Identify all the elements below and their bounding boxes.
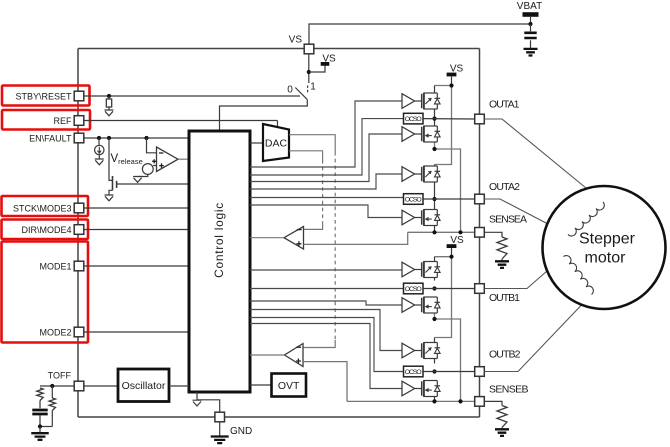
wire to inner VS tap bbox=[309, 66, 325, 72]
pin REF bbox=[74, 116, 84, 126]
pin OUTB1 bbox=[475, 284, 485, 294]
wire ctrl to HS A2 driver bbox=[250, 174, 402, 189]
ground control logic bbox=[193, 400, 202, 406]
highlight box STCK\MODE3 bbox=[2, 196, 89, 216]
supply VS bridge A bbox=[447, 64, 464, 86]
block Oscillator bbox=[118, 369, 169, 402]
wire en to opamp minus bbox=[147, 138, 157, 153]
wire STCK\MODE3 bbox=[84, 207, 189, 209]
transistor Q release bbox=[109, 138, 117, 195]
svg-text:GND: GND bbox=[230, 426, 252, 437]
gate driver A1 high-side bbox=[402, 94, 415, 109]
switch arm bbox=[295, 88, 307, 100]
wire VS-pin to VBAT bbox=[309, 24, 531, 44]
wire VS pin down to switch bbox=[308, 54, 310, 83]
ground senseB bbox=[495, 429, 509, 436]
comparator A bbox=[284, 227, 304, 250]
svg-text:Oscillator: Oscillator bbox=[122, 380, 166, 392]
wire to GND pin bbox=[197, 400, 220, 413]
resistor R2 toff bbox=[40, 386, 56, 427]
resistor R stby pulldown bbox=[106, 96, 111, 110]
wire ctrl to HS A1 driver bbox=[250, 101, 402, 167]
svg-text:STCK\MODE3: STCK\MODE3 bbox=[13, 203, 72, 213]
gate driver B2 low-side bbox=[402, 381, 415, 396]
gate driver A2 high-side bbox=[402, 167, 415, 182]
wire OUTB2 to coil bbox=[484, 295, 591, 372]
pin VS bbox=[304, 44, 314, 54]
ground GND pin bbox=[211, 422, 229, 443]
svg-text:0: 0 bbox=[287, 84, 293, 95]
node en junction 1 bbox=[97, 136, 101, 140]
node en junction 2 bbox=[107, 136, 111, 140]
stepper motor body bbox=[543, 186, 666, 309]
resistor R senseA bbox=[484, 232, 507, 261]
pin SENSEA bbox=[475, 228, 485, 238]
wire phase B2 bbox=[434, 359, 436, 364]
wire OUTA2 to coil bbox=[484, 199, 568, 235]
transistor A2 low-side MOSFET bbox=[415, 209, 441, 226]
wire ctrl to HS B2 driver bbox=[250, 310, 402, 351]
wire IC right border bbox=[479, 49, 481, 418]
node VS A bbox=[449, 83, 453, 87]
wire HS A2 drain bbox=[434, 165, 436, 167]
svg-text:MODE2: MODE2 bbox=[39, 327, 71, 337]
svg-text:TOFF: TOFF bbox=[48, 371, 72, 381]
svg-text:DIR\MODE4: DIR\MODE4 bbox=[21, 225, 71, 235]
wire SENSEA bbox=[408, 231, 475, 233]
svg-text:OUTB1: OUTB1 bbox=[489, 292, 520, 304]
wire MODE1 bbox=[84, 265, 189, 267]
block OCSO B2 bbox=[404, 366, 424, 377]
wire control to DAC bbox=[250, 142, 263, 144]
wire HS A1 drain bbox=[434, 86, 436, 94]
wire ctrl to LS A2 driver bbox=[250, 205, 402, 218]
voltage source V release bbox=[138, 159, 157, 176]
pin TOFF bbox=[74, 381, 84, 391]
transistor B1 low-side MOSFET bbox=[415, 297, 441, 314]
svg-text:SENSEB: SENSEB bbox=[489, 383, 529, 395]
wire OUTB1 bbox=[423, 288, 475, 290]
ground toff bbox=[31, 427, 49, 440]
wire compA plus bbox=[304, 232, 408, 244]
wire compB plus bbox=[303, 362, 347, 402]
svg-text:OCSO: OCSO bbox=[405, 369, 422, 376]
svg-text:DAC: DAC bbox=[265, 138, 288, 150]
svg-text:OUTA2: OUTA2 bbox=[489, 181, 520, 193]
ground senseA bbox=[495, 261, 509, 268]
block OCSO A1 bbox=[404, 113, 424, 124]
svg-text:REF: REF bbox=[54, 116, 73, 126]
ground stby pulldown bbox=[105, 110, 114, 116]
capacitor C vbat bbox=[530, 24, 532, 49]
pin DIR\MODE4 bbox=[74, 225, 84, 235]
svg-text:motor: motor bbox=[585, 250, 627, 267]
transistor A2 high-side MOSFET bbox=[415, 166, 441, 183]
ground v release bbox=[133, 177, 142, 183]
block Control logic bbox=[189, 131, 250, 392]
svg-text:OCSO: OCSO bbox=[405, 286, 422, 293]
pin STCK\MODE3 bbox=[74, 203, 84, 213]
wire DAC out2 to compA bbox=[304, 222, 323, 229]
wire phase A2 bbox=[434, 182, 436, 210]
svg-text:OCSO: OCSO bbox=[405, 116, 422, 123]
wire MODE2 bbox=[84, 331, 189, 333]
wire LS A1 source bbox=[435, 142, 461, 232]
block DAC bbox=[263, 124, 289, 161]
node sense A2 bbox=[458, 230, 462, 234]
pin SENSEB bbox=[475, 397, 485, 407]
wire ctrl to LS B1 driver bbox=[250, 301, 402, 305]
wire TOFF external bbox=[40, 385, 74, 387]
wire ctrl to HS B1 driver bbox=[250, 269, 402, 271]
highlight box MODE1 MODE2 bbox=[2, 242, 89, 343]
wire ctrl to LS B2 driver bbox=[250, 324, 402, 389]
wire opamp out bbox=[178, 158, 189, 160]
wire OUTB1 to coil bbox=[484, 257, 563, 289]
capacitor C toff bbox=[39, 401, 41, 427]
wire phase A1 bbox=[434, 109, 436, 126]
wire HS B1 drain bbox=[434, 257, 436, 262]
node stby pulldown junction bbox=[107, 94, 111, 98]
pin OUTA2 bbox=[475, 194, 485, 204]
gate driver B1 low-side bbox=[402, 298, 415, 313]
supply VS bridge B bbox=[447, 235, 464, 257]
supply bar VBAT bbox=[523, 12, 539, 17]
wire SENSEB bbox=[347, 400, 475, 402]
svg-text:Control logic: Control logic bbox=[212, 202, 226, 278]
block OCSO B1 bbox=[404, 283, 424, 294]
gate driver B2 high-side bbox=[402, 343, 415, 358]
svg-text:VBAT: VBAT bbox=[517, 1, 542, 12]
transistor B1 high-side MOSFET bbox=[415, 261, 441, 278]
wire IC top border bbox=[78, 48, 480, 50]
wire OUTA1 bbox=[423, 118, 475, 120]
wire STBY\RESET bbox=[84, 95, 300, 97]
transistor B2 low-side MOSFET bbox=[415, 380, 441, 397]
gate driver B1 high-side bbox=[402, 262, 415, 277]
node sense B1 bbox=[432, 399, 436, 403]
wire DAC out1 to compB bbox=[303, 340, 335, 348]
wire IC left border bbox=[77, 49, 79, 418]
resistor R senseB bbox=[484, 401, 507, 429]
svg-text:1: 1 bbox=[310, 82, 316, 93]
pin MODE2 bbox=[74, 327, 84, 337]
wire TOFF to oscillator bbox=[84, 385, 118, 387]
node VS B bbox=[449, 255, 453, 259]
wire switch common to control logic bbox=[220, 100, 308, 131]
wire LS B1 source bbox=[435, 313, 461, 401]
svg-text:OCSO: OCSO bbox=[405, 197, 422, 204]
wire compB out bbox=[250, 354, 285, 356]
node LS B1 source bbox=[432, 317, 436, 321]
wire ctrl to OCSO A1 bbox=[250, 119, 404, 175]
wire gate to control logic bbox=[117, 183, 189, 185]
svg-text:Stepper: Stepper bbox=[579, 231, 636, 248]
inductor coil A bbox=[568, 202, 604, 236]
inductor coil B bbox=[564, 256, 594, 295]
wire VS rail A bbox=[435, 86, 452, 165]
gate driver A1 low-side bbox=[402, 127, 415, 142]
wire HS B2 drain bbox=[434, 338, 436, 343]
resistor R toff bbox=[37, 388, 43, 401]
wire oscillator to control bbox=[169, 385, 189, 387]
node LS A1 source bbox=[432, 147, 436, 151]
node phase A1 bbox=[432, 117, 436, 121]
svg-text:VS: VS bbox=[289, 35, 303, 46]
svg-text:EN\FAULT: EN\FAULT bbox=[29, 133, 72, 143]
svg-text:SENSEA: SENSEA bbox=[489, 213, 527, 225]
wire LS B2 source bbox=[434, 397, 436, 402]
svg-text:VS: VS bbox=[322, 54, 336, 65]
svg-text:OUTA1: OUTA1 bbox=[489, 98, 520, 110]
wire OUTB2 bbox=[423, 371, 475, 373]
wire LS A2 source bbox=[434, 226, 436, 233]
op-amp U release bbox=[157, 147, 179, 172]
pin GND bbox=[215, 412, 225, 422]
transistor A1 high-side MOSFET bbox=[415, 93, 441, 110]
pin OUTB2 bbox=[475, 367, 485, 377]
highlight box DIR\MODE4 bbox=[2, 220, 89, 240]
wire REF bbox=[84, 120, 278, 122]
node toff bottom junction bbox=[38, 424, 42, 428]
node phase B1 bbox=[432, 286, 436, 290]
wire DAC out1 dashed drop bbox=[334, 152, 336, 340]
node vs inner junction bbox=[307, 70, 311, 74]
ground transistor bbox=[105, 195, 114, 201]
wire switch 1 stub bbox=[307, 86, 309, 94]
wire control to OVT bbox=[250, 384, 272, 386]
wire OUTA2 bbox=[423, 198, 475, 200]
node sense A1 bbox=[432, 230, 436, 234]
highlight box REF bbox=[2, 110, 90, 130]
supply bar VS inner bbox=[321, 62, 330, 66]
pin OUTA1 bbox=[475, 114, 485, 124]
transistor B2 high-side MOSFET bbox=[415, 342, 441, 359]
svg-text:OUTB2: OUTB2 bbox=[489, 348, 521, 360]
transistor A1 low-side MOSFET bbox=[415, 126, 441, 143]
svg-text:MODE1: MODE1 bbox=[39, 261, 71, 271]
wire ctrl to OCSO A2 bbox=[250, 197, 404, 199]
wire control to gnd arrow bbox=[196, 392, 198, 400]
node VBAT junction bbox=[528, 22, 532, 26]
wire ctrl to OCSO B1 bbox=[250, 288, 404, 290]
wire DAC out2 bbox=[289, 151, 323, 160]
ground current source bbox=[95, 159, 104, 165]
wire EN\FAULT bbox=[84, 137, 189, 139]
comparator B bbox=[285, 344, 304, 367]
pin STBY\RESET bbox=[74, 91, 84, 101]
wire DIR\MODE4 bbox=[84, 229, 189, 231]
block OCSO A2 bbox=[404, 194, 424, 205]
node en junction 3 bbox=[144, 136, 148, 140]
wire VS rail B bbox=[435, 257, 452, 338]
node TOFF ext junction bbox=[50, 384, 54, 388]
wire compA out bbox=[250, 237, 284, 239]
ground vbat bbox=[524, 49, 538, 56]
svg-text:STBY\RESET: STBY\RESET bbox=[15, 91, 72, 101]
wire DAC out1 bbox=[289, 135, 335, 152]
node phase B2 bbox=[432, 369, 436, 373]
current source I en bbox=[95, 138, 104, 159]
wire IC bottom border bbox=[78, 416, 480, 418]
gate driver A2 low-side bbox=[402, 210, 415, 225]
wire DAC out2 dashed drop bbox=[322, 160, 324, 222]
wire OUTA1 to coil bbox=[484, 119, 603, 202]
node phase A2 bbox=[432, 197, 436, 201]
wire ref to DAC bbox=[277, 121, 279, 128]
highlight box STBY\RESET bbox=[2, 86, 90, 106]
pin MODE1 bbox=[74, 261, 84, 271]
block OVT bbox=[272, 374, 307, 397]
wire ctrl to OCSO B2 bbox=[250, 318, 404, 372]
wire phase B1 bbox=[434, 278, 436, 281]
svg-text:OVT: OVT bbox=[278, 380, 300, 392]
wire ctrl to LS A1 driver bbox=[250, 134, 402, 182]
node sense B2 bbox=[458, 399, 462, 403]
pin EN\FAULT bbox=[74, 133, 84, 143]
